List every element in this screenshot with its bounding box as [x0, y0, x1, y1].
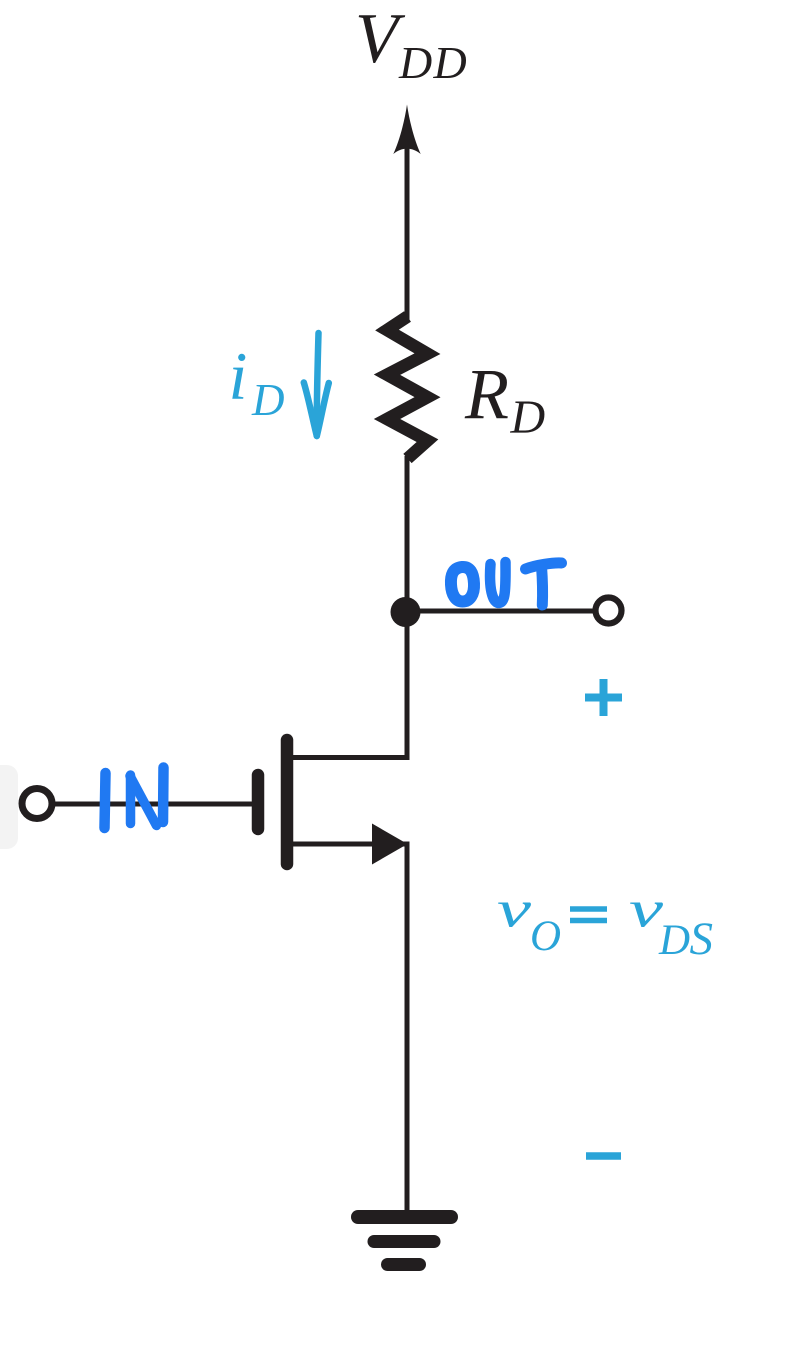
- svg-text:v: v: [497, 882, 532, 939]
- svg-text:O: O: [530, 913, 561, 960]
- svg-text:i: i: [229, 338, 248, 414]
- svg-text:D: D: [658, 917, 690, 964]
- svg-text:R: R: [464, 354, 509, 434]
- svg-text:S: S: [690, 913, 714, 965]
- svg-text:D: D: [251, 375, 285, 425]
- svg-text:D: D: [433, 37, 467, 88]
- svg-text:D: D: [510, 391, 546, 444]
- svg-text:D: D: [398, 37, 432, 88]
